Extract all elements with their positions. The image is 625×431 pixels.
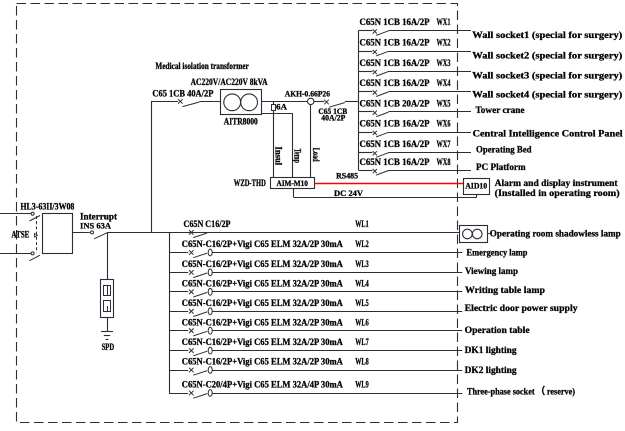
svg-text:C65N-C16/2P+Vigi C65 ELM 32A/2: C65N-C16/2P+Vigi C65 ELM 32A/2P 30mA [182, 338, 343, 348]
svg-text:WX8: WX8 [437, 158, 451, 168]
svg-text:WX4: WX4 [437, 79, 451, 89]
svg-text:WX2: WX2 [437, 39, 451, 49]
svg-text:Operating Bed: Operating Bed [476, 145, 532, 155]
svg-text:Writing table lamp: Writing table lamp [465, 286, 545, 296]
svg-text:C65N-C16/2P+Vigi C65 ELM 32A/2: C65N-C16/2P+Vigi C65 ELM 32A/2P 30mA [182, 299, 343, 309]
svg-text:INS 63A: INS 63A [80, 220, 112, 230]
svg-text:WL1: WL1 [355, 220, 369, 230]
svg-text:C65N 1CB 16A/2P: C65N 1CB 16A/2P [360, 79, 430, 89]
svg-text:Insul: Insul [272, 147, 282, 166]
svg-text:ATSE: ATSE [11, 230, 29, 240]
svg-text:Tower crane: Tower crane [476, 106, 525, 116]
svg-text:DK1 lighting: DK1 lighting [465, 346, 517, 356]
svg-text:C65N 1CB 16A/2P: C65N 1CB 16A/2P [360, 59, 430, 69]
svg-text:WX7: WX7 [437, 140, 451, 150]
svg-text:WX3: WX3 [437, 59, 451, 69]
svg-text:RS485: RS485 [336, 170, 358, 180]
svg-text:C65N C16/2P: C65N C16/2P [184, 220, 231, 230]
svg-text:Emergency lamp: Emergency lamp [467, 249, 528, 259]
svg-text:Load: Load [310, 148, 320, 162]
svg-text:C65N-C16/2P+Vigi C65 ELM 32A/2: C65N-C16/2P+Vigi C65 ELM 32A/2P 30mA [182, 358, 343, 368]
svg-text:Central Intelligence Control P: Central Intelligence Control Panel [473, 129, 623, 139]
svg-text:6A: 6A [276, 103, 287, 112]
svg-text:WL3: WL3 [355, 260, 369, 270]
svg-text:WX6: WX6 [437, 120, 451, 130]
svg-text:Operation table: Operation table [465, 326, 530, 336]
svg-text:SPD: SPD [102, 342, 115, 352]
svg-text:C65N-C20/4P+Vigi C65 ELM 32A/4: C65N-C20/4P+Vigi C65 ELM 32A/4P 30mA [182, 381, 343, 391]
svg-text:PC Platform: PC Platform [476, 163, 526, 173]
svg-text:DC 24V: DC 24V [334, 188, 364, 198]
svg-text:C65N-C16/2P+Vigi C65 ELM 32A/2: C65N-C16/2P+Vigi C65 ELM 32A/2P 30mA [182, 240, 343, 250]
svg-text:WZD-THD: WZD-THD [234, 178, 266, 188]
svg-text:C65N 1CB 20A/2P: C65N 1CB 20A/2P [360, 99, 430, 109]
svg-text:40A/2P: 40A/2P [321, 113, 346, 123]
svg-text:WL2: WL2 [355, 240, 369, 250]
svg-text:C65N-C16/2P+Vigi C65 ELM 32A/2: C65N-C16/2P+Vigi C65 ELM 32A/2P 30mA [182, 260, 343, 270]
svg-text:Wall socket3 (special for surg: Wall socket3 (special for surgery) [472, 70, 622, 81]
svg-text:WL8: WL8 [355, 358, 369, 368]
svg-text:Wall socket2 (special for surg: Wall socket2 (special for surgery) [472, 50, 622, 61]
svg-text:AID10: AID10 [465, 181, 487, 190]
svg-text:Alarm and display instrument: Alarm and display instrument [495, 179, 619, 189]
svg-text:WX5: WX5 [437, 99, 451, 109]
svg-text:WL5: WL5 [355, 299, 369, 309]
svg-text:C65 1CB 40A/2P: C65 1CB 40A/2P [152, 90, 213, 100]
svg-text:HL3-63II/3W08: HL3-63II/3W08 [20, 201, 74, 211]
svg-text:C65N 1CB 16A/2P: C65N 1CB 16A/2P [360, 158, 430, 168]
svg-text:DK2 lighting: DK2 lighting [465, 366, 517, 376]
svg-text:Electric door power supply: Electric door power supply [465, 304, 578, 314]
svg-text:Medical isolation transformer: Medical isolation transformer [155, 61, 248, 71]
svg-text:C65N 1CB 16A/2P: C65N 1CB 16A/2P [360, 39, 430, 49]
svg-text:C65N-C16/2P+Vigi C65 ELM 32A/2: C65N-C16/2P+Vigi C65 ELM 32A/2P 30mA [182, 318, 343, 328]
svg-text:C65N 1CB 16A/2P: C65N 1CB 16A/2P [360, 140, 430, 150]
svg-text:Wall socket1 (special for surg: Wall socket1 (special for surgery) [472, 30, 622, 41]
svg-text:AIM-M10: AIM-M10 [276, 179, 308, 188]
svg-text:Operating room shadowless lamp: Operating room shadowless lamp [490, 229, 621, 239]
svg-text:Viewing lamp: Viewing lamp [465, 267, 518, 277]
svg-text:Wall socket4 (special for surg: Wall socket4 (special for surgery) [472, 89, 622, 100]
svg-text:AITR8000: AITR8000 [224, 116, 258, 126]
svg-text:WX1: WX1 [437, 18, 451, 28]
svg-text:AC220V/AC220V 8kVA: AC220V/AC220V 8kVA [191, 78, 268, 88]
svg-text:WL6: WL6 [355, 318, 369, 328]
svg-text:AKH-0.66P26: AKH-0.66P26 [285, 89, 331, 99]
svg-text:C65N 1CB 16A/2P: C65N 1CB 16A/2P [360, 18, 430, 28]
svg-text:Temp: Temp [292, 149, 302, 163]
svg-text:WL7: WL7 [355, 338, 369, 348]
svg-text:C65N-C16/2P+Vigi C65 ELM 32A/2: C65N-C16/2P+Vigi C65 ELM 32A/2P 30mA [182, 279, 343, 289]
svg-text:(Installed in operating room): (Installed in operating room) [495, 188, 620, 199]
svg-text:WL9: WL9 [355, 381, 369, 391]
svg-text:Three-phase socket （ reserve): Three-phase socket （ reserve) [467, 386, 575, 398]
svg-text:WL4: WL4 [355, 279, 369, 289]
svg-text:C65N 1CB 16A/2P: C65N 1CB 16A/2P [360, 120, 430, 130]
